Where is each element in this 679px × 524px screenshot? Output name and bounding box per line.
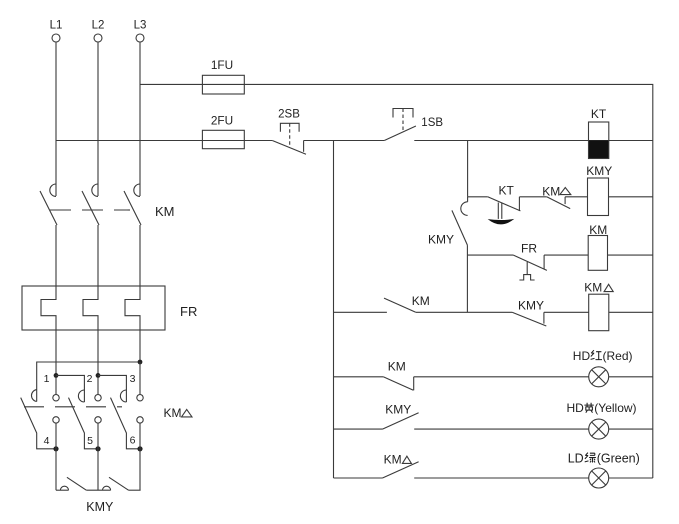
wire delta bus — [37, 362, 140, 402]
node on L3 at delta bus — [138, 360, 143, 365]
wire to KM-delta coil — [544, 311, 589, 313]
wire top rail — [140, 84, 653, 478]
contact KMY NC — [512, 299, 546, 327]
wire control rung 1 — [56, 140, 272, 142]
svg-text:1FU: 1FU — [211, 58, 233, 72]
wire row6 left — [334, 477, 383, 479]
lamp HD red — [573, 349, 633, 387]
coil KMY — [586, 164, 612, 216]
wire row4 left — [334, 376, 384, 378]
wire feed to hook B — [56, 375, 84, 402]
wire 2SB to 1SB — [304, 140, 385, 142]
terminal L1 — [50, 20, 63, 43]
svg-text:KM: KM — [164, 406, 182, 420]
wire yellow lamp to rail — [609, 428, 653, 430]
node 2 junction — [96, 373, 101, 378]
svg-text:6: 6 — [130, 435, 136, 447]
svg-text:FR: FR — [180, 304, 197, 319]
pushbutton 1SB — [384, 109, 443, 141]
wire red lamp to rail — [609, 376, 653, 378]
contact FR NC — [513, 242, 547, 281]
svg-text:(Red): (Red) — [603, 349, 633, 363]
svg-text:5: 5 — [87, 435, 93, 447]
contact KM auxiliary NO — [384, 294, 430, 312]
timer coil KT — [589, 107, 609, 159]
pushbutton 2SB — [272, 109, 306, 155]
coil KM — [588, 223, 607, 270]
svg-text:3: 3 — [130, 373, 136, 385]
lamp LD green — [568, 451, 640, 488]
coil KM-delta — [584, 281, 613, 331]
wire phase L2 middle with FR heater — [83, 225, 98, 395]
wire FR rung left — [467, 254, 513, 256]
node 4 junction — [53, 446, 58, 451]
wire FR to KM coil — [544, 254, 588, 256]
wire L3 to terminal 3 — [139, 362, 141, 395]
contact KMY lamp-yellow — [383, 403, 419, 430]
wire green lamp to rail — [609, 477, 653, 479]
wire 1SB to KT coil — [414, 140, 653, 142]
contact KM-delta lamp-green — [383, 452, 419, 478]
thermal relay FR box — [22, 286, 197, 330]
wire middle vertical upper — [467, 141, 469, 197]
contactor KM-delta contact block — [21, 373, 192, 449]
svg-text:LD: LD — [568, 451, 584, 465]
fuse 1FU — [202, 58, 244, 94]
wire feed to hook C — [98, 375, 126, 402]
contactor KMY star contacts — [56, 477, 141, 514]
wire to KMY coil — [565, 196, 587, 198]
node 6 junction — [137, 446, 142, 451]
svg-text:KM: KM — [542, 184, 560, 198]
svg-text:FR: FR — [521, 242, 537, 256]
wire KT contact to KM-delta contact — [519, 196, 546, 198]
wire KMY coil to rail — [609, 196, 653, 198]
svg-text:HD: HD — [567, 401, 585, 415]
wire terminal 5 down — [97, 423, 99, 490]
wire KM contact to KMY contact — [416, 311, 512, 313]
svg-text:KT: KT — [591, 107, 607, 121]
contact KM lamp-red — [383, 360, 413, 391]
wire KT rung left — [468, 196, 488, 198]
lamp HD yellow — [567, 401, 637, 439]
svg-text:KT: KT — [499, 184, 515, 198]
svg-text:(Yellow): (Yellow) — [594, 401, 636, 415]
svg-text:KMY: KMY — [385, 403, 411, 417]
node 1 junction — [54, 373, 59, 378]
wire phase L1 upper — [55, 42, 57, 196]
contact KT delayed NC — [488, 184, 521, 225]
contact KMY auxiliary (vertical) — [428, 197, 468, 247]
wire row3 left — [334, 311, 387, 313]
wire middle vertical lower — [466, 245, 468, 312]
terminal L3 — [134, 20, 147, 43]
svg-text:1: 1 — [44, 373, 50, 385]
contactor KM main contacts — [40, 184, 175, 225]
svg-text:KM: KM — [388, 360, 406, 374]
svg-text:2SB: 2SB — [278, 109, 300, 121]
svg-text:KMY: KMY — [518, 299, 544, 313]
wire terminal 4 down — [55, 423, 57, 490]
node 5 junction — [95, 446, 100, 451]
svg-text:KMY: KMY — [586, 164, 612, 178]
svg-text:(Green): (Green) — [597, 451, 640, 465]
svg-text:2: 2 — [87, 373, 93, 385]
svg-text:4: 4 — [44, 435, 50, 447]
svg-text:KM: KM — [589, 223, 607, 237]
wire to red lamp — [414, 376, 589, 378]
svg-text:2FU: 2FU — [211, 114, 233, 128]
wire phase L1 middle with FR heater — [41, 225, 56, 395]
terminal L2 — [92, 20, 105, 43]
svg-text:L3: L3 — [134, 20, 147, 32]
svg-text:L2: L2 — [92, 20, 105, 32]
contact KM-delta NC — [542, 184, 571, 208]
svg-text:KMY: KMY — [428, 233, 454, 247]
svg-text:KM: KM — [155, 204, 175, 219]
svg-text:KM: KM — [584, 281, 602, 295]
wire KM-delta coil to rail — [609, 311, 653, 313]
wire phase L3 middle with FR heater — [125, 225, 140, 362]
wire KM coil to rail — [608, 254, 653, 256]
svg-text:1SB: 1SB — [421, 117, 443, 129]
wire left rail — [333, 141, 335, 479]
svg-text:KMY: KMY — [86, 500, 114, 514]
wire terminal 6 down — [139, 423, 141, 490]
svg-text:L1: L1 — [50, 20, 63, 32]
svg-text:KM: KM — [412, 294, 430, 308]
wire to yellow lamp — [414, 428, 589, 430]
wire phase L2 upper — [97, 42, 99, 196]
svg-text:KM: KM — [384, 452, 402, 466]
wire phase L3 upper — [139, 42, 141, 196]
wire to green lamp — [414, 477, 589, 479]
svg-text:HD: HD — [573, 349, 591, 363]
wire row5 left — [334, 428, 383, 430]
fuse 2FU — [202, 114, 244, 149]
